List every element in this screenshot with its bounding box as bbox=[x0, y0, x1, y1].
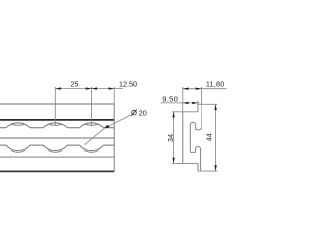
svg-text:20: 20 bbox=[139, 108, 147, 117]
side view: rail right edge bbox=[113, 104, 115, 172]
dimension 12.50: extension/right edge upper part bbox=[113, 87, 115, 104]
svg-text:25: 25 bbox=[71, 79, 79, 88]
side view: mid line bbox=[0, 137, 114, 139]
diameter 20 text bbox=[132, 110, 137, 115]
dimension 44: bottom arrowhead bbox=[214, 165, 216, 171]
side view: row1 bump 1 inner arc bbox=[11, 123, 25, 126]
section: foot inner edge bbox=[197, 163, 199, 171]
dimension 9.50: left arrowhead bbox=[183, 102, 189, 104]
svg-text:9.50: 9.50 bbox=[162, 95, 178, 104]
dimension 11.80: dimension line bbox=[183, 88, 227, 90]
side view: row2 dip 3 outer arc bbox=[79, 145, 103, 151]
side view: row1 bump 3 inner arc bbox=[84, 123, 98, 126]
section: ledge top line with 34 extension bbox=[172, 111, 198, 113]
dimension 34: dimension line bbox=[173, 112, 175, 164]
side view: row2 plateau segments bbox=[0, 144, 114, 146]
side view: row2 dip 3 inner arc bbox=[84, 150, 98, 152]
dimension 12.50: right arrowhead bbox=[109, 87, 115, 89]
dimension 25: left arrowhead bbox=[55, 87, 61, 89]
dimension 25: dimension line bbox=[55, 88, 123, 90]
section: shelf1 with fillet bbox=[196, 127, 202, 129]
side view: row1 bump 2 outer arc bbox=[43, 123, 67, 128]
section: upper right wall (faint) bbox=[200, 104, 202, 127]
side view: rail bottom edge bbox=[0, 170, 114, 172]
diameter 20 leader arrowhead bbox=[104, 125, 110, 129]
svg-text:12.50: 12.50 bbox=[119, 79, 137, 88]
section: tab left edge bbox=[197, 104, 199, 112]
side view: lower line bbox=[0, 156, 114, 158]
section: left slab bottom with 34 extension bbox=[172, 162, 198, 164]
dimension 25: right arrowhead bbox=[86, 87, 92, 89]
dimension 11.80: right extension line bbox=[200, 87, 202, 104]
section: finger2 hook bbox=[196, 146, 201, 171]
side view: row2 dip 1 outer arc bbox=[6, 145, 30, 151]
side view: row1 baseline segments bbox=[0, 127, 114, 129]
dimension 12.50: left arrowhead bbox=[91, 87, 97, 89]
section: shelf2 with fillet bbox=[190, 151, 195, 152]
svg-text:11,80: 11,80 bbox=[206, 80, 225, 89]
dimension 34: top arrowhead bbox=[172, 112, 174, 118]
side view: row2 dip 2 inner arc bbox=[48, 150, 62, 152]
diameter 20 leader line bbox=[85, 115, 131, 145]
side view: row1 bump 3 outer arc bbox=[79, 123, 103, 128]
dimension 11.80: left arrowhead bbox=[183, 88, 189, 90]
dimension 25: extension line left bbox=[54, 87, 56, 125]
dimension 9.50: right extension line bbox=[197, 101, 199, 104]
side view: rail top edge bbox=[0, 103, 114, 105]
side view: row2 dip 2 outer arc bbox=[43, 145, 67, 151]
dimension 25: extension line right bbox=[90, 87, 92, 126]
dimension 9.50: right arrowhead bbox=[192, 102, 198, 104]
dimension 34: bottom arrowhead bbox=[172, 158, 174, 164]
section: finger1 hook bbox=[190, 122, 195, 151]
section: tab top with 44 extension bbox=[198, 103, 217, 105]
svg-text:34: 34 bbox=[166, 134, 175, 142]
side view: row1 bump 2 inner arc bbox=[48, 123, 62, 126]
side view: row1 bump 1 outer arc bbox=[6, 123, 30, 128]
section: foot bottom with 44 extension bbox=[198, 170, 217, 172]
dimension 44: dimension line bbox=[215, 104, 217, 171]
svg-text:44: 44 bbox=[206, 133, 213, 141]
dimension 9.50: dimension line bbox=[161, 102, 200, 104]
dimension 44: top arrowhead bbox=[214, 104, 216, 110]
side view: row2 dip 1 inner arc bbox=[11, 150, 25, 152]
dimension 9.50/11.80: left extension line bbox=[182, 87, 184, 112]
dimension 11.80: right arrowhead bbox=[196, 88, 202, 90]
section: left edge bbox=[182, 112, 184, 164]
side view: rail dark upper line bbox=[0, 119, 114, 121]
